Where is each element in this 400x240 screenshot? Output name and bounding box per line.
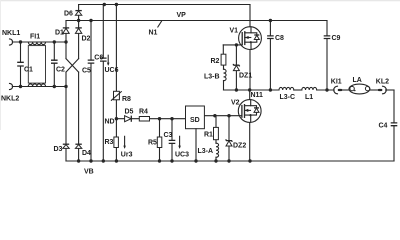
svg-text:NKL2: NKL2 [1,96,19,103]
svg-text:KI1: KI1 [331,79,342,86]
svg-text:ND: ND [105,118,115,125]
svg-text:D6: D6 [64,11,73,18]
svg-text:DZ2: DZ2 [233,143,246,150]
svg-text:N1: N1 [149,30,158,37]
svg-text:NKL1: NKL1 [2,30,20,37]
svg-text:L3-C: L3-C [280,94,296,101]
svg-text:R2: R2 [211,58,220,65]
svg-text:VP: VP [177,12,187,19]
svg-text:UC6: UC6 [105,67,119,74]
svg-text:C6: C6 [94,55,103,62]
svg-text:L1: L1 [305,94,313,101]
svg-text:D1: D1 [55,30,64,37]
svg-text:DZ1: DZ1 [239,73,252,80]
svg-text:V2: V2 [231,100,240,107]
svg-text:C9: C9 [332,35,341,42]
svg-text:R5: R5 [148,140,157,147]
svg-text:L3-A: L3-A [198,148,214,155]
svg-text:V1: V1 [230,28,239,35]
svg-text:L3-B: L3-B [204,74,220,81]
svg-text:R8: R8 [122,96,131,103]
svg-text:C2: C2 [56,67,65,74]
svg-text:UC3: UC3 [175,151,189,158]
svg-text:C5: C5 [82,68,91,75]
svg-text:SD: SD [190,117,200,124]
svg-text:C8: C8 [275,35,284,42]
svg-text:R3: R3 [105,139,114,146]
svg-text:VB: VB [84,169,94,176]
svg-text:C1: C1 [24,67,33,74]
svg-text:KL2: KL2 [376,79,389,86]
svg-text:Ur3: Ur3 [121,151,133,158]
svg-text:D2: D2 [82,36,91,43]
svg-text:LA: LA [353,77,362,84]
svg-text:FI1: FI1 [30,34,40,41]
svg-text:C3: C3 [164,132,173,139]
svg-text:D5: D5 [125,109,134,116]
svg-text:D4: D4 [82,150,91,157]
svg-text:C4: C4 [379,123,388,130]
svg-text:R4: R4 [139,109,148,116]
svg-text:D3: D3 [54,146,63,153]
svg-text:N11: N11 [251,92,264,99]
svg-text:R1: R1 [204,132,213,139]
